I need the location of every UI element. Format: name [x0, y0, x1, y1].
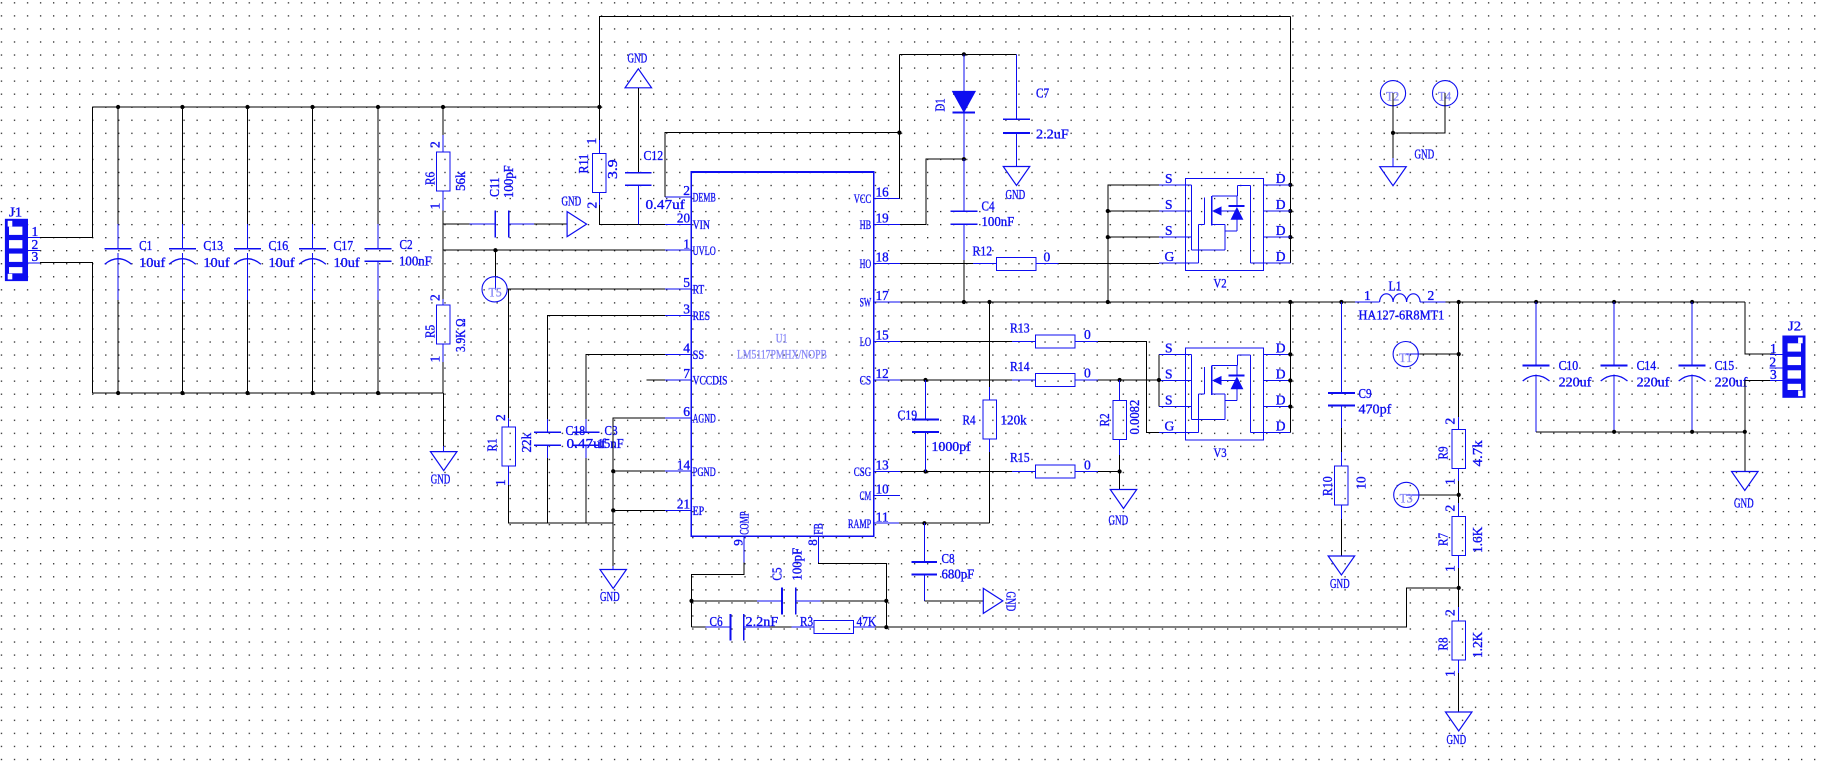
svg-text:R5: R5: [423, 325, 438, 338]
transistor V3: [1159, 340, 1290, 460]
svg-text:GND: GND: [628, 51, 648, 66]
test point T2: [1380, 81, 1405, 106]
power port GND at C8: [983, 588, 1018, 613]
capacitor C16: [234, 224, 295, 300]
svg-text:100nF: 100nF: [982, 214, 1015, 229]
wire C17 top lead: [312, 107, 314, 224]
svg-text:3.9K Ω: 3.9K Ω: [453, 318, 468, 352]
junction T5 tap: [493, 248, 497, 252]
wire C8 to GND port: [924, 600, 983, 602]
svg-text:10uf: 10uf: [203, 255, 230, 270]
capacitor C3 15nF: [573, 419, 624, 458]
wire GND arrow to C12: [637, 88, 639, 173]
svg-text:S: S: [1165, 393, 1173, 408]
wire J1 pin1 to bus: [40, 107, 93, 238]
junction C13 top: [180, 105, 184, 109]
svg-text:22k: 22k: [519, 433, 534, 453]
svg-text:SS: SS: [693, 347, 705, 362]
svg-text:C19: C19: [898, 408, 918, 423]
junction R2 bottom: [1118, 469, 1122, 473]
svg-text:1: 1: [1443, 670, 1458, 677]
svg-text:2: 2: [428, 294, 443, 301]
ground GND below R5: [430, 446, 457, 487]
wire T2T4 to GND: [1392, 133, 1394, 158]
svg-text:R7: R7: [1435, 533, 1450, 546]
ground GND below T2 T4: [1380, 147, 1435, 186]
svg-text:220uf: 220uf: [1637, 374, 1670, 389]
junction C13 bottom: [180, 391, 184, 395]
svg-text:1000pf: 1000pf: [932, 439, 972, 454]
wire C2 bottom lead: [377, 300, 379, 393]
svg-text:2: 2: [585, 202, 600, 209]
svg-text:15nF: 15nF: [598, 436, 625, 451]
wire input top bus: [93, 106, 600, 108]
svg-text:R13: R13: [1010, 321, 1030, 336]
pin 20 VIN of U1: [665, 211, 711, 232]
svg-text:680pF: 680pF: [942, 567, 975, 582]
resistor R2 0.0082: [1097, 380, 1142, 472]
svg-text:3: 3: [32, 249, 39, 264]
junction R6 top bus: [441, 105, 445, 109]
junction C2 top: [376, 105, 380, 109]
wire VCC top to C7: [899, 53, 1016, 55]
svg-text:D: D: [1276, 197, 1286, 212]
svg-text:LM5117PMHX/NOPB: LM5117PMHX/NOPB: [737, 348, 827, 362]
svg-text:R2: R2: [1097, 413, 1112, 426]
power port GND at C11: [562, 194, 587, 237]
svg-text:0: 0: [1084, 458, 1091, 473]
svg-text:GND: GND: [1109, 513, 1129, 528]
svg-text:C14: C14: [1637, 358, 1657, 373]
svg-text:2: 2: [1428, 288, 1435, 303]
svg-text:2: 2: [428, 141, 443, 148]
svg-text:GND: GND: [600, 589, 620, 604]
wire SS to C3: [586, 354, 665, 419]
wire C3 bottom: [585, 458, 587, 523]
ground GND arrow above C12: [625, 51, 652, 88]
junction VCC-DEMB: [897, 131, 901, 135]
wire LO to R13: [900, 340, 1012, 342]
wire output node column: [1458, 302, 1460, 417]
capacitor C8 680pF: [912, 523, 975, 601]
svg-text:4: 4: [683, 341, 690, 356]
junction V2 source bus SW: [1106, 300, 1110, 304]
junction FB R3: [884, 625, 888, 629]
svg-text:0: 0: [1084, 366, 1091, 381]
svg-text:1: 1: [493, 479, 508, 486]
svg-text:C10: C10: [1559, 358, 1579, 373]
svg-text:120k: 120k: [1001, 413, 1027, 428]
junction COMP C5 row: [689, 599, 693, 603]
svg-text:VIN: VIN: [693, 217, 711, 232]
junction V2 S3: [1106, 235, 1110, 239]
svg-text:S: S: [1165, 223, 1173, 238]
svg-text:8: 8: [805, 539, 820, 546]
wire riser to top rail: [599, 16, 1290, 107]
svg-text:C6: C6: [710, 614, 723, 629]
junction V2 D3: [1288, 235, 1292, 239]
svg-text:15: 15: [876, 328, 889, 343]
svg-text:UVLO: UVLO: [693, 243, 716, 258]
svg-text:1: 1: [584, 138, 599, 145]
junction V3 D3: [1288, 405, 1292, 409]
svg-text:GND: GND: [1006, 187, 1026, 202]
svg-text:EP: EP: [693, 503, 705, 518]
junction C16 top: [245, 105, 249, 109]
svg-text:V2: V2: [1214, 275, 1227, 290]
svg-text:D: D: [1276, 419, 1286, 434]
wire V2 S3: [1108, 236, 1159, 238]
svg-text:13: 13: [876, 458, 889, 473]
wire CS to R14: [900, 379, 1012, 381]
resistor R8 1.2K: [1435, 588, 1485, 712]
capacitor C15 220uf: [1679, 302, 1748, 432]
junction V3 source link: [1157, 378, 1161, 382]
wire V2 S2: [1108, 210, 1159, 212]
svg-text:C13: C13: [203, 238, 223, 253]
svg-text:10: 10: [876, 482, 889, 497]
wire FB net: [819, 562, 887, 627]
pin 15 LO of U1: [860, 328, 900, 349]
ground GND below EP: [600, 566, 627, 604]
junction R4 SW: [987, 300, 991, 304]
pin 8 FB of U1: [805, 523, 825, 562]
svg-text:C15: C15: [1715, 358, 1735, 373]
svg-text:J1: J1: [9, 205, 22, 220]
resistor R1 22k: [484, 414, 534, 486]
svg-text:100pF: 100pF: [501, 165, 516, 198]
junction C17 top: [310, 105, 314, 109]
svg-text:100nF: 100nF: [399, 254, 432, 269]
wire HB net: [900, 159, 964, 224]
wire C11 to GND port: [534, 223, 567, 225]
junction D1 cathode HB C4: [962, 157, 966, 161]
capacitor C9 470pf: [1328, 302, 1392, 428]
capacitor C18 0.47uf: [534, 419, 606, 458]
svg-text:R9: R9: [1435, 446, 1450, 459]
inductor L1 HA127-6R8MT1: [1355, 279, 1446, 323]
ground GND below R2: [1109, 490, 1137, 528]
svg-text:1: 1: [683, 236, 690, 251]
svg-text:0: 0: [1044, 250, 1051, 265]
pin 14 PGND of U1: [665, 457, 716, 478]
wire C13 top lead: [181, 107, 183, 224]
wire R4 bottom corner: [989, 452, 991, 523]
wire C13 bottom lead: [181, 300, 183, 393]
connector J2: [1769, 319, 1805, 398]
wire C5 row left: [692, 600, 758, 602]
junction V2 S2: [1106, 209, 1110, 213]
svg-text:7: 7: [683, 366, 690, 381]
wire RT to R1 column: [508, 289, 510, 418]
pin 9 COMP of U1: [731, 512, 752, 563]
wire RAMP row: [899, 522, 990, 524]
svg-text:2: 2: [683, 183, 690, 198]
wire T2 down: [1392, 93, 1394, 133]
svg-text:RES: RES: [693, 308, 710, 323]
pin 21 EP of U1: [665, 497, 704, 518]
svg-text:GND: GND: [1004, 592, 1019, 612]
test point T5: [482, 277, 507, 302]
resistor R11 3.9: [576, 138, 620, 209]
svg-text:D: D: [1276, 249, 1286, 264]
wire V2 source bus: [1108, 185, 1159, 302]
svg-text:2.2uF: 2.2uF: [1036, 127, 1069, 142]
junction C14 top: [1612, 300, 1616, 304]
junction C4 SW: [962, 300, 966, 304]
pin 10 CM of U1: [860, 482, 900, 503]
junction T2 T4: [1391, 131, 1395, 135]
pin 1 UVLO of U1: [665, 236, 716, 257]
svg-text:1: 1: [428, 203, 443, 210]
wire C5 row right: [821, 600, 887, 602]
junction C10 top: [1534, 300, 1538, 304]
wire J1 pin3 to bottom bus: [40, 262, 93, 393]
resistor R10 10: [1320, 428, 1368, 556]
wire C1 bottom lead: [117, 300, 119, 393]
wire R11 top lead: [598, 107, 600, 140]
junction EP: [611, 508, 615, 512]
svg-text:HB: HB: [860, 217, 872, 232]
junction R2 top: [1118, 378, 1122, 382]
svg-text:T5: T5: [489, 286, 502, 300]
svg-text:3: 3: [1770, 367, 1777, 382]
svg-text:T1: T1: [1399, 351, 1412, 365]
svg-text:3: 3: [683, 302, 690, 317]
junction T3 row: [1457, 493, 1461, 497]
pin 2 DEMB of U1: [665, 183, 716, 204]
wire DEMB net: [665, 133, 900, 197]
svg-text:0.0082: 0.0082: [1127, 400, 1142, 435]
svg-text:R6: R6: [423, 172, 438, 185]
svg-text:1: 1: [428, 356, 443, 363]
junction R7 R8 FB: [1457, 586, 1461, 590]
svg-text:J2: J2: [1788, 319, 1801, 334]
svg-text:C1: C1: [139, 238, 152, 253]
svg-text:2: 2: [1443, 505, 1458, 512]
capacitor C13: [169, 224, 230, 300]
junction C16 bottom: [245, 391, 249, 395]
svg-text:S: S: [1165, 340, 1173, 355]
wire divider to C11 row: [443, 223, 469, 225]
junction V3 D2: [1288, 378, 1292, 382]
svg-text:GND: GND: [1447, 732, 1467, 747]
svg-text:V3: V3: [1214, 445, 1227, 460]
wire AGND column: [613, 418, 665, 566]
svg-text:47K: 47K: [857, 614, 877, 629]
wire HO to R12: [900, 263, 973, 265]
capacitor C5 100pF: [757, 547, 820, 614]
resistor R9 4.7k: [1435, 417, 1485, 495]
svg-text:R1: R1: [484, 438, 499, 451]
junction C9 SW: [1339, 300, 1343, 304]
svg-text:56k: 56k: [453, 171, 468, 191]
svg-text:2: 2: [1443, 609, 1458, 616]
svg-text:GND: GND: [1330, 576, 1350, 591]
svg-text:14: 14: [677, 457, 690, 472]
pin 5 RT of U1: [665, 275, 704, 296]
junction T1 row: [1457, 352, 1461, 356]
svg-text:R8: R8: [1435, 637, 1450, 650]
pin 19 HB of U1: [860, 211, 900, 232]
ground GND below J2: [1732, 472, 1759, 511]
svg-text:C4: C4: [982, 199, 995, 214]
svg-text:R10: R10: [1320, 476, 1335, 496]
svg-text:16: 16: [876, 185, 889, 200]
wire CSG to R15: [900, 471, 1012, 473]
wire input bottom bus: [93, 392, 444, 394]
resistor R6 56k: [423, 135, 468, 211]
junction input bus R11 riser: [597, 105, 601, 109]
svg-text:18: 18: [876, 250, 889, 265]
wire output bottom rail: [1536, 431, 1745, 433]
junction C15 top: [1690, 300, 1694, 304]
wire C17 bottom lead: [312, 300, 314, 393]
connector J1: [5, 205, 40, 282]
svg-text:R12: R12: [973, 244, 993, 259]
test point T4: [1433, 81, 1458, 106]
op-amp U1 LM5117PMHX/NOPB body: [691, 172, 873, 536]
svg-text:GND: GND: [431, 472, 451, 487]
svg-text:AGND: AGND: [693, 410, 716, 425]
wire PGND row: [613, 470, 665, 472]
junction FB C5: [884, 599, 888, 603]
svg-text:S: S: [1165, 367, 1173, 382]
wire L1 to output rail: [1446, 301, 1745, 303]
svg-text:C5: C5: [770, 567, 785, 580]
svg-text:C17: C17: [334, 238, 354, 253]
ground GND below R8: [1445, 712, 1472, 747]
capacitor C7 2.2uF: [1003, 54, 1069, 166]
svg-text:R11: R11: [576, 154, 591, 174]
svg-text:100pF: 100pF: [790, 547, 805, 580]
svg-text:1: 1: [1443, 478, 1458, 485]
svg-text:GND: GND: [1734, 496, 1754, 511]
capacitor C11 100pF: [469, 165, 534, 238]
junction C15 bottom: [1690, 430, 1694, 434]
svg-text:R14: R14: [1010, 359, 1030, 374]
svg-text:6: 6: [683, 404, 690, 419]
svg-text:4.7k: 4.7k: [1470, 440, 1485, 466]
svg-text:PGND: PGND: [693, 464, 716, 479]
wire VCCDIS stub: [646, 379, 665, 381]
svg-text:S: S: [1165, 171, 1173, 186]
wire R3 to FB node: [875, 626, 886, 628]
svg-text:HA127-6R8MT1: HA127-6R8MT1: [1359, 307, 1445, 322]
wire divider node column: [442, 211, 444, 299]
wire RES to C18: [548, 315, 665, 419]
junction V2 D2: [1288, 209, 1292, 213]
svg-text:R3: R3: [800, 614, 813, 629]
svg-text:C9: C9: [1359, 386, 1372, 401]
svg-text:VCC: VCC: [854, 191, 871, 206]
pin 13 CSG of U1: [854, 458, 900, 479]
capacitor C19 1000pf: [898, 380, 972, 472]
resistor R13 0: [1010, 321, 1098, 348]
svg-text:D: D: [1276, 393, 1286, 408]
svg-text:19: 19: [876, 211, 889, 226]
svg-text:T3: T3: [1400, 492, 1413, 506]
svg-text:1.2K: 1.2K: [1470, 632, 1485, 658]
resistor R4 120k: [963, 302, 1027, 523]
capacitor C4 100nF: [951, 159, 1015, 260]
wire T4 down: [1393, 93, 1445, 133]
svg-text:10uf: 10uf: [269, 255, 296, 270]
svg-text:R15: R15: [1010, 450, 1030, 465]
transistor V2: [1159, 171, 1290, 291]
svg-text:20: 20: [677, 211, 690, 226]
wire FB to output divider: [886, 588, 1458, 627]
svg-text:C2: C2: [400, 237, 413, 252]
capacitor C17: [299, 224, 360, 300]
svg-text:C16: C16: [269, 238, 289, 253]
svg-text:HO: HO: [860, 256, 872, 271]
svg-text:C12: C12: [644, 148, 664, 163]
svg-text:DEMB: DEMB: [693, 190, 716, 205]
junction RAMP C8: [922, 521, 926, 525]
svg-text:220uf: 220uf: [1559, 374, 1592, 389]
junction V3 drain bus SW: [1288, 300, 1292, 304]
svg-text:2: 2: [493, 414, 508, 421]
capacitor C2 100nF: [365, 224, 433, 300]
pin 4 SS of U1: [665, 341, 704, 362]
wire R11 to VIN: [599, 205, 665, 225]
junction C19 CSG: [923, 469, 927, 473]
svg-text:5: 5: [683, 275, 690, 290]
wire R5 to bottom bus: [442, 362, 444, 393]
wire RT row: [507, 288, 665, 290]
pin 7 VCCDIS of U1: [665, 366, 727, 387]
svg-text:2: 2: [1443, 418, 1458, 425]
wire top rail to V2 drains: [1289, 16, 1291, 263]
svg-text:1: 1: [1364, 288, 1371, 303]
wire C16 bottom lead: [247, 300, 249, 393]
resistor R5 3.9K: [423, 294, 468, 362]
svg-text:220uf: 220uf: [1715, 374, 1748, 389]
wire V3 source bus: [1158, 354, 1160, 406]
ground GND below C7: [1003, 167, 1030, 203]
svg-text:GND: GND: [562, 194, 582, 209]
svg-text:RT: RT: [693, 281, 705, 296]
svg-text:10: 10: [1353, 476, 1368, 489]
capacitor C1: [105, 224, 166, 300]
svg-text:LO: LO: [860, 334, 872, 349]
wire R14 to V3 sources: [1098, 379, 1159, 381]
svg-text:COMP: COMP: [736, 512, 751, 535]
wire R6 top lead: [442, 107, 444, 135]
pin 3 RES of U1: [665, 302, 710, 323]
svg-text:G: G: [1165, 419, 1175, 434]
wire C2 top lead: [377, 107, 379, 224]
svg-text:D1: D1: [933, 98, 948, 111]
svg-text:10uf: 10uf: [139, 255, 166, 270]
test point T1: [1393, 342, 1419, 367]
resistor R12 0: [973, 244, 1059, 271]
svg-text:10uf: 10uf: [334, 255, 361, 270]
pin 18 HO of U1: [860, 250, 900, 271]
svg-text:3.9: 3.9: [605, 159, 620, 179]
svg-text:9: 9: [731, 539, 746, 546]
svg-text:1.6K: 1.6K: [1470, 527, 1485, 553]
resistor R14 0: [1010, 359, 1098, 387]
wire T1 to output column: [1419, 353, 1458, 355]
svg-text:12: 12: [876, 366, 889, 381]
wire C4 to SW rail: [963, 260, 965, 302]
capacitor C6 2.2nF: [706, 614, 779, 641]
svg-text:G: G: [1165, 249, 1175, 264]
capacitor C14 220uf: [1601, 302, 1670, 432]
svg-text:RAMP: RAMP: [848, 516, 871, 531]
